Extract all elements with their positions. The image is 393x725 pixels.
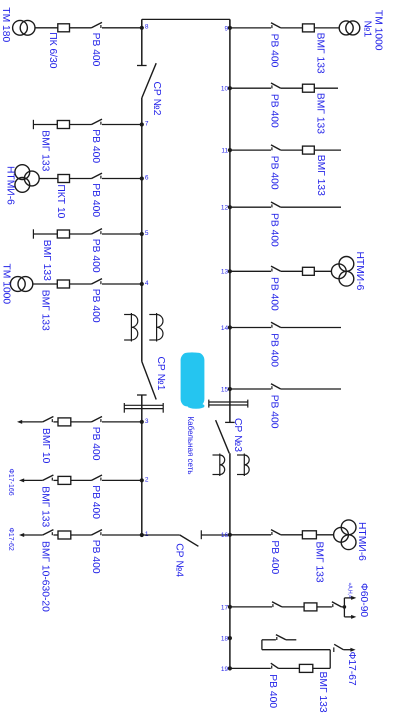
junction 15 xyxy=(221,386,232,393)
svg-text:11: 11 xyxy=(221,148,228,155)
wire row14 bus-switch xyxy=(230,327,271,329)
label Ф17-67 xyxy=(346,652,357,686)
svg-text:8: 8 xyxy=(145,24,149,31)
svg-text:РВ 400: РВ 400 xyxy=(268,333,279,367)
fuse ПК 6/30 xyxy=(58,24,70,32)
open end bar right of corner xyxy=(333,647,335,652)
fuse ПКТ 10 xyxy=(58,175,70,183)
label ПК 6/30 xyxy=(47,32,58,69)
svg-text:РВ 400: РВ 400 xyxy=(268,277,279,311)
fork junction row17 xyxy=(343,605,347,609)
wire row15 bus-switch xyxy=(230,388,271,390)
junction 5 xyxy=(140,230,149,237)
wire row5 end-fuse xyxy=(33,233,57,235)
svg-text:РВ 400: РВ 400 xyxy=(90,183,101,217)
wire row3 fuse-switch xyxy=(71,421,92,423)
wire loop top line xyxy=(262,639,276,641)
fuse ВМГ 133 row4 xyxy=(57,280,69,288)
svg-text:РВ 400: РВ 400 xyxy=(90,289,101,323)
breaker ВМГ 133 row2 xyxy=(43,475,54,481)
svg-text:РВ 400: РВ 400 xyxy=(90,129,101,163)
label НТМИ-6 row16 xyxy=(356,522,367,561)
label ВМГ 133 row2 xyxy=(40,486,51,527)
disconnector РВ 400 row16 xyxy=(271,530,281,535)
label ВМГ 133 row11 xyxy=(315,155,326,196)
wire row16 bus-switch xyxy=(230,534,271,536)
wire row12 switch-end xyxy=(281,206,341,208)
wire row5 switch-bus xyxy=(102,233,142,235)
label РВ 400 row5 xyxy=(90,239,101,273)
fuse ВМГ 133 row16 xyxy=(302,531,316,539)
svg-text:№1: №1 xyxy=(362,21,373,38)
bus B1 (left) lower section xyxy=(141,395,143,535)
junction 10 xyxy=(221,86,232,93)
fuse ВМГ 133 row19 xyxy=(299,664,312,672)
disconnector РВ 400 row15 xyxy=(271,384,281,389)
wire row6 switch-bus xyxy=(102,178,142,180)
svg-text:17: 17 xyxy=(221,604,229,611)
wire row12 bus-switch xyxy=(230,206,271,208)
wire СР №4 from junction 1 xyxy=(142,534,180,536)
voltage transformer НТМИ-6 (row13) xyxy=(331,257,353,287)
svg-text:18: 18 xyxy=(221,636,229,643)
disconnector РВ 400 row7 xyxy=(92,119,103,125)
line arrow row2 xyxy=(19,478,24,482)
disconnector РВ 400 row2 xyxy=(92,475,103,481)
wire row17 fuse-switch2 xyxy=(317,606,332,608)
fork branch down (arrow) xyxy=(344,607,356,619)
label ТМ 1000 (right) xyxy=(373,10,384,51)
label Ф17-166 xyxy=(7,469,14,496)
disconnector РВ 400 row10 xyxy=(271,83,281,88)
junction 17 xyxy=(221,604,232,611)
svg-text:РВ 400: РВ 400 xyxy=(90,239,101,273)
svg-text:ПКТ 10: ПКТ 10 xyxy=(55,184,66,218)
svg-text:РВ 400: РВ 400 xyxy=(90,427,101,461)
label ВМГ 133 row16 xyxy=(314,542,325,583)
label РВ 400 row3 xyxy=(90,427,101,461)
wire loop top stub xyxy=(286,639,296,641)
label РВ 400 row19 xyxy=(267,674,278,708)
label РВ 400 row16 xyxy=(269,540,280,574)
svg-text:ВМГ 133: ВМГ 133 xyxy=(317,672,328,713)
svg-text:6: 6 xyxy=(145,174,149,181)
wire row1 breaker-fuse xyxy=(53,534,58,536)
svg-text:Ф17-62: Ф17-62 xyxy=(7,528,14,551)
disconnector toward Ф17-67 xyxy=(334,644,343,649)
svg-text:ВМГ 133: ВМГ 133 xyxy=(314,542,325,583)
wire end bar row7 xyxy=(32,120,34,129)
wire row9 switch-fuse xyxy=(281,27,303,29)
junction 18 xyxy=(221,636,232,643)
svg-text:9: 9 xyxy=(224,25,228,32)
wire row10 bus-switch xyxy=(230,87,271,89)
disconnector РВ 400 row9 xyxy=(271,23,281,28)
line arrow row3 xyxy=(17,420,22,424)
disconnector РВ 400 row6 xyxy=(92,173,103,179)
label РВ 400 row4 xyxy=(90,289,101,323)
wire row2 fuse-switch xyxy=(71,479,92,481)
junction 7 xyxy=(140,120,149,127)
svg-text:РВ 400: РВ 400 xyxy=(268,213,279,247)
removable link (double bar) on bus B1 xyxy=(124,403,163,413)
wire row8 transformer-fuse xyxy=(35,27,58,29)
label РВ 400 row14 xyxy=(268,333,279,367)
highlighter mark (cyan) xyxy=(181,352,205,408)
svg-text:НТМИ-6: НТМИ-6 xyxy=(5,166,16,205)
line arrow row1 xyxy=(19,533,24,537)
wire end bar row5 xyxy=(32,229,34,238)
current transformer (left of СР №1) xyxy=(124,313,138,342)
svg-text:ВМГ 133: ВМГ 133 xyxy=(40,486,51,527)
fuse row13 xyxy=(303,267,315,275)
label РВ 400 row12 xyxy=(268,213,279,247)
svg-text:3: 3 xyxy=(145,418,149,425)
disconnector РВ 400 row5 xyxy=(92,229,103,235)
wire row2 switch-bus xyxy=(102,479,142,481)
wire row3 breaker-fuse xyxy=(53,421,58,423)
svg-text:10: 10 xyxy=(221,86,229,93)
fuse row2 xyxy=(58,476,71,484)
wire row17 bus-switch xyxy=(230,606,272,608)
svg-text:ТМ 180: ТМ 180 xyxy=(0,7,11,42)
label СР №1 xyxy=(155,357,166,391)
svg-text:РВ 400: РВ 400 xyxy=(269,540,280,574)
svg-text:РВ 400: РВ 400 xyxy=(267,674,278,708)
wire row7 fuse-switch xyxy=(70,124,92,126)
junction 19 xyxy=(221,666,232,673)
breaker ВМГ 10 row3 xyxy=(43,417,54,423)
bus B2 (right) upper section xyxy=(229,19,231,422)
wire row14 switch-end xyxy=(281,327,341,329)
fuse ВМГ 133 row11 xyxy=(303,146,315,154)
fuse row1 xyxy=(58,531,71,539)
svg-text:ВМГ 133: ВМГ 133 xyxy=(41,240,52,281)
svg-text:19: 19 xyxy=(221,666,229,673)
svg-text:РВ 400: РВ 400 xyxy=(268,34,279,68)
breaker ВМГ 10-630-20 row1 xyxy=(43,530,54,536)
junction 9 xyxy=(224,25,232,32)
fuse row17 xyxy=(304,603,317,611)
svg-text:НТМИ-6: НТМИ-6 xyxy=(354,252,365,291)
wire row9 fuse-transformer xyxy=(314,27,339,29)
svg-text:СР №2: СР №2 xyxy=(151,82,162,116)
wire row4 fuse-switch xyxy=(70,283,92,285)
disconnector СР №4 blade xyxy=(180,535,199,546)
junction 11 xyxy=(221,148,232,155)
disconnector РВ 400 row14 xyxy=(271,322,281,327)
wire row10 switch-fuse xyxy=(281,87,303,89)
removable link (double bar) on bus B2 xyxy=(209,400,248,408)
label СР №4 xyxy=(174,543,185,577)
junction 16 xyxy=(221,532,232,539)
svg-text:СР №4: СР №4 xyxy=(174,543,185,577)
svg-text:ВМГ 133: ВМГ 133 xyxy=(315,93,326,134)
svg-text:ВМГ 133: ВМГ 133 xyxy=(315,33,326,74)
svg-text:РВ 400: РВ 400 xyxy=(268,156,279,190)
wire row8 switch-bus xyxy=(102,27,142,29)
disconnector РВ 400 row4 xyxy=(92,279,103,285)
wire СР №4 to bus B2 xyxy=(201,534,230,536)
wire row1 fuse-switch xyxy=(71,534,92,536)
disconnector РВ 400 row19 xyxy=(271,663,279,668)
label РВ 400 row6 xyxy=(90,183,101,217)
wire row11 bus-switch xyxy=(230,149,271,151)
disconnector РВ 400 row11 xyxy=(271,145,281,150)
svg-text:12: 12 xyxy=(221,205,229,212)
bus B1 open end bar (СР №2) xyxy=(137,65,147,67)
label РВ 400 row1 xyxy=(90,540,101,574)
fork branch up (arrow) xyxy=(344,596,356,607)
svg-text:РВ 400: РВ 400 xyxy=(90,485,101,519)
svg-text:ТМ 1000: ТМ 1000 xyxy=(1,264,12,305)
label РВ 400 row2 xyxy=(90,485,101,519)
svg-text:СР №3: СР №3 xyxy=(232,418,243,452)
label ВМГ 133 row7 xyxy=(40,130,51,171)
wire row19 switch-fuse xyxy=(279,667,300,669)
svg-text:Ф17-67: Ф17-67 xyxy=(346,652,357,686)
label СР №3 xyxy=(232,418,243,452)
junction 3 xyxy=(140,418,149,425)
svg-text:4: 4 xyxy=(145,280,149,287)
fuse ВМГ 133 row7 xyxy=(57,121,69,129)
svg-text:7: 7 xyxy=(145,120,149,127)
svg-text:15: 15 xyxy=(221,386,229,393)
junction 4 xyxy=(140,280,149,287)
label ВМГ 10 xyxy=(40,428,51,464)
disconnector row17 first xyxy=(272,602,282,607)
svg-text:РВ 400: РВ 400 xyxy=(90,33,101,67)
wire row13 bus-switch xyxy=(230,270,271,272)
wire row16 fuse-transformer xyxy=(316,534,333,536)
tie between bus sections (top) xyxy=(142,18,230,20)
svg-text:НТМИ-6: НТМИ-6 xyxy=(356,522,367,561)
wire row13 switch-fuse xyxy=(281,270,303,272)
wire row3 switch-bus xyxy=(102,421,142,423)
wire row13 fuse-transformer xyxy=(314,270,331,272)
wire row6 transformer-fuse xyxy=(39,178,58,180)
junction 6 xyxy=(140,174,149,181)
current transformer (right of СР №1) xyxy=(149,313,163,342)
fuse ВМГ 133 row5 xyxy=(57,230,69,238)
wire row17 switch2-fork xyxy=(341,606,344,608)
wire row15 switch-end xyxy=(281,388,341,390)
label ПКТ 10 xyxy=(55,184,66,218)
wire row1 arrow-breaker xyxy=(24,534,43,536)
label НТМИ-6 row13 xyxy=(354,252,365,291)
wire row19 fuse-corner xyxy=(313,667,330,669)
transformer ТМ 1000 №1 xyxy=(339,21,360,35)
wire row16 switch-fuse xyxy=(281,534,303,536)
label РВ 400 row11 xyxy=(268,156,279,190)
wire row19 bus-switch xyxy=(230,667,271,669)
bus B2 open end bar (СР №3) xyxy=(225,421,235,423)
svg-text:13: 13 xyxy=(221,269,229,276)
junction 14 xyxy=(221,325,232,332)
wire row11 fuse-end xyxy=(314,149,341,151)
wire row3 arrow-breaker xyxy=(22,421,43,423)
wire row5 fuse-switch xyxy=(70,233,92,235)
junction 2 xyxy=(140,476,149,483)
svg-text:5: 5 xyxy=(145,230,149,237)
svg-text:ВМГ 133: ВМГ 133 xyxy=(40,290,51,331)
bus B1 (left) upper section xyxy=(141,19,143,65)
disconnector СР №2 blade xyxy=(142,63,156,98)
wire row7 switch-bus xyxy=(102,124,142,126)
disconnector РВ 400 row13 xyxy=(271,266,281,271)
svg-text:РВ 400: РВ 400 xyxy=(268,395,279,429)
junction 12 xyxy=(221,205,232,212)
current transformer (left of СР №3) xyxy=(213,454,225,477)
wire row9 bus-switch xyxy=(230,27,271,29)
voltage transformer НТМИ-6 (row16) xyxy=(334,520,356,550)
wire row11 switch-fuse xyxy=(281,149,303,151)
wire to arrow Ф17-67 xyxy=(343,649,351,651)
disconnector РВ 400 row1 xyxy=(92,530,103,536)
wire tie stub left xyxy=(141,19,143,27)
fuse ВМГ 133 row9 xyxy=(303,24,315,32)
current transformer (right of СР №3) xyxy=(237,454,249,477)
bus B2 (right) lower section xyxy=(229,453,231,668)
wire row10 fuse-end xyxy=(314,87,338,89)
label РВ 400 row9 xyxy=(268,34,279,68)
label ВМГ 133 row10 xyxy=(315,93,326,134)
wire tie stub right xyxy=(229,19,231,28)
label ВМГ 133 row4 xyxy=(40,290,51,331)
junction 8 xyxy=(140,24,149,31)
label РВ 400 row7 xyxy=(90,129,101,163)
label СР №2 xyxy=(151,82,162,116)
wire row2 arrow-breaker xyxy=(24,479,43,481)
wire row4 switch-bus xyxy=(102,283,142,285)
svg-text:РВ 400: РВ 400 xyxy=(90,540,101,574)
wire row17 switch-fuse xyxy=(282,606,304,608)
wire row19 corner up xyxy=(329,650,331,669)
svg-text:Ф17-166: Ф17-166 xyxy=(7,469,14,496)
svg-text:ВМГ 10-630-20: ВМГ 10-630-20 xyxy=(40,541,51,612)
disconnector РВ 400 row8 xyxy=(92,22,103,28)
label Ф60-90 xyxy=(358,583,369,617)
voltage transformer НТМИ-6 (left) xyxy=(15,165,39,193)
svg-text:ВМГ 133: ВМГ 133 xyxy=(40,130,51,171)
svg-text:14: 14 xyxy=(221,325,229,332)
bus B1 open end bar (СР №1) xyxy=(137,394,147,396)
wire row1 switch-bus xyxy=(102,534,142,536)
fuse ВМГ 133 row10 xyxy=(303,84,315,92)
label ВМГ 10-630-20 xyxy=(40,541,51,612)
bus B1 (left) middle section xyxy=(141,98,143,362)
disconnector СР №3 blade xyxy=(216,420,230,453)
svg-text:ПК 6/30: ПК 6/30 xyxy=(47,32,58,69)
svg-text:«А,Н,»: «А,Н,» xyxy=(346,583,352,599)
label РВ 400 row13 xyxy=(268,277,279,311)
label «А,Н,» xyxy=(346,583,352,599)
wire row8 fuse-switch xyxy=(70,27,92,29)
junction 13 xyxy=(221,269,232,276)
svg-text:ВМГ 133: ВМГ 133 xyxy=(315,155,326,196)
wire row2 breaker-fuse xyxy=(53,479,58,481)
label Ф17-62 xyxy=(7,528,14,551)
svg-text:Ф60-90: Ф60-90 xyxy=(358,583,369,617)
svg-text:ВМГ 10: ВМГ 10 xyxy=(40,428,51,464)
label РВ 400 row10 xyxy=(268,94,279,128)
fuse row3 xyxy=(58,418,71,426)
wire row6 fuse-switch xyxy=(70,178,92,180)
label ВМГ 133 row19 xyxy=(317,672,328,713)
wire row4 transformer-fuse xyxy=(33,283,58,285)
label РВ 400 row8 xyxy=(90,33,101,67)
label №1 xyxy=(362,21,373,38)
junction 1 xyxy=(140,531,149,538)
svg-text:16: 16 xyxy=(221,532,229,539)
disconnector row17 second xyxy=(332,602,342,607)
transformer ТМ 180 xyxy=(13,20,35,35)
svg-text:СР №1: СР №1 xyxy=(155,357,166,391)
disconnector РВ 400 row3 xyxy=(92,417,103,423)
svg-text:ТМ 1000: ТМ 1000 xyxy=(373,10,384,51)
label ТМ 1000 left xyxy=(1,264,12,305)
label ВМГ 133 row5 xyxy=(41,240,52,281)
open disconnector in loop top xyxy=(276,635,286,640)
svg-text:2: 2 xyxy=(145,476,149,483)
transformer ТМ 1000 (left) xyxy=(10,277,32,292)
label ВМГ 133 row9 xyxy=(315,33,326,74)
line arrow Ф17-67 xyxy=(350,648,355,652)
wire loop bottom line xyxy=(262,649,330,651)
label НТМИ-6 left xyxy=(5,166,16,205)
wire loop left vertical xyxy=(261,640,263,650)
svg-text:Кабельная сеть: Кабельная сеть xyxy=(186,417,195,475)
label ТМ 180 xyxy=(0,7,11,42)
svg-text:РВ 400: РВ 400 xyxy=(268,94,279,128)
disconnector РВ 400 row12 xyxy=(271,202,281,207)
wire row7 end-fuse xyxy=(33,124,57,126)
label Кабельная сеть xyxy=(186,417,195,475)
СР №4 open end bar xyxy=(200,530,202,539)
disconnector СР №1 blade xyxy=(142,362,156,400)
label РВ 400 row15 xyxy=(268,395,279,429)
